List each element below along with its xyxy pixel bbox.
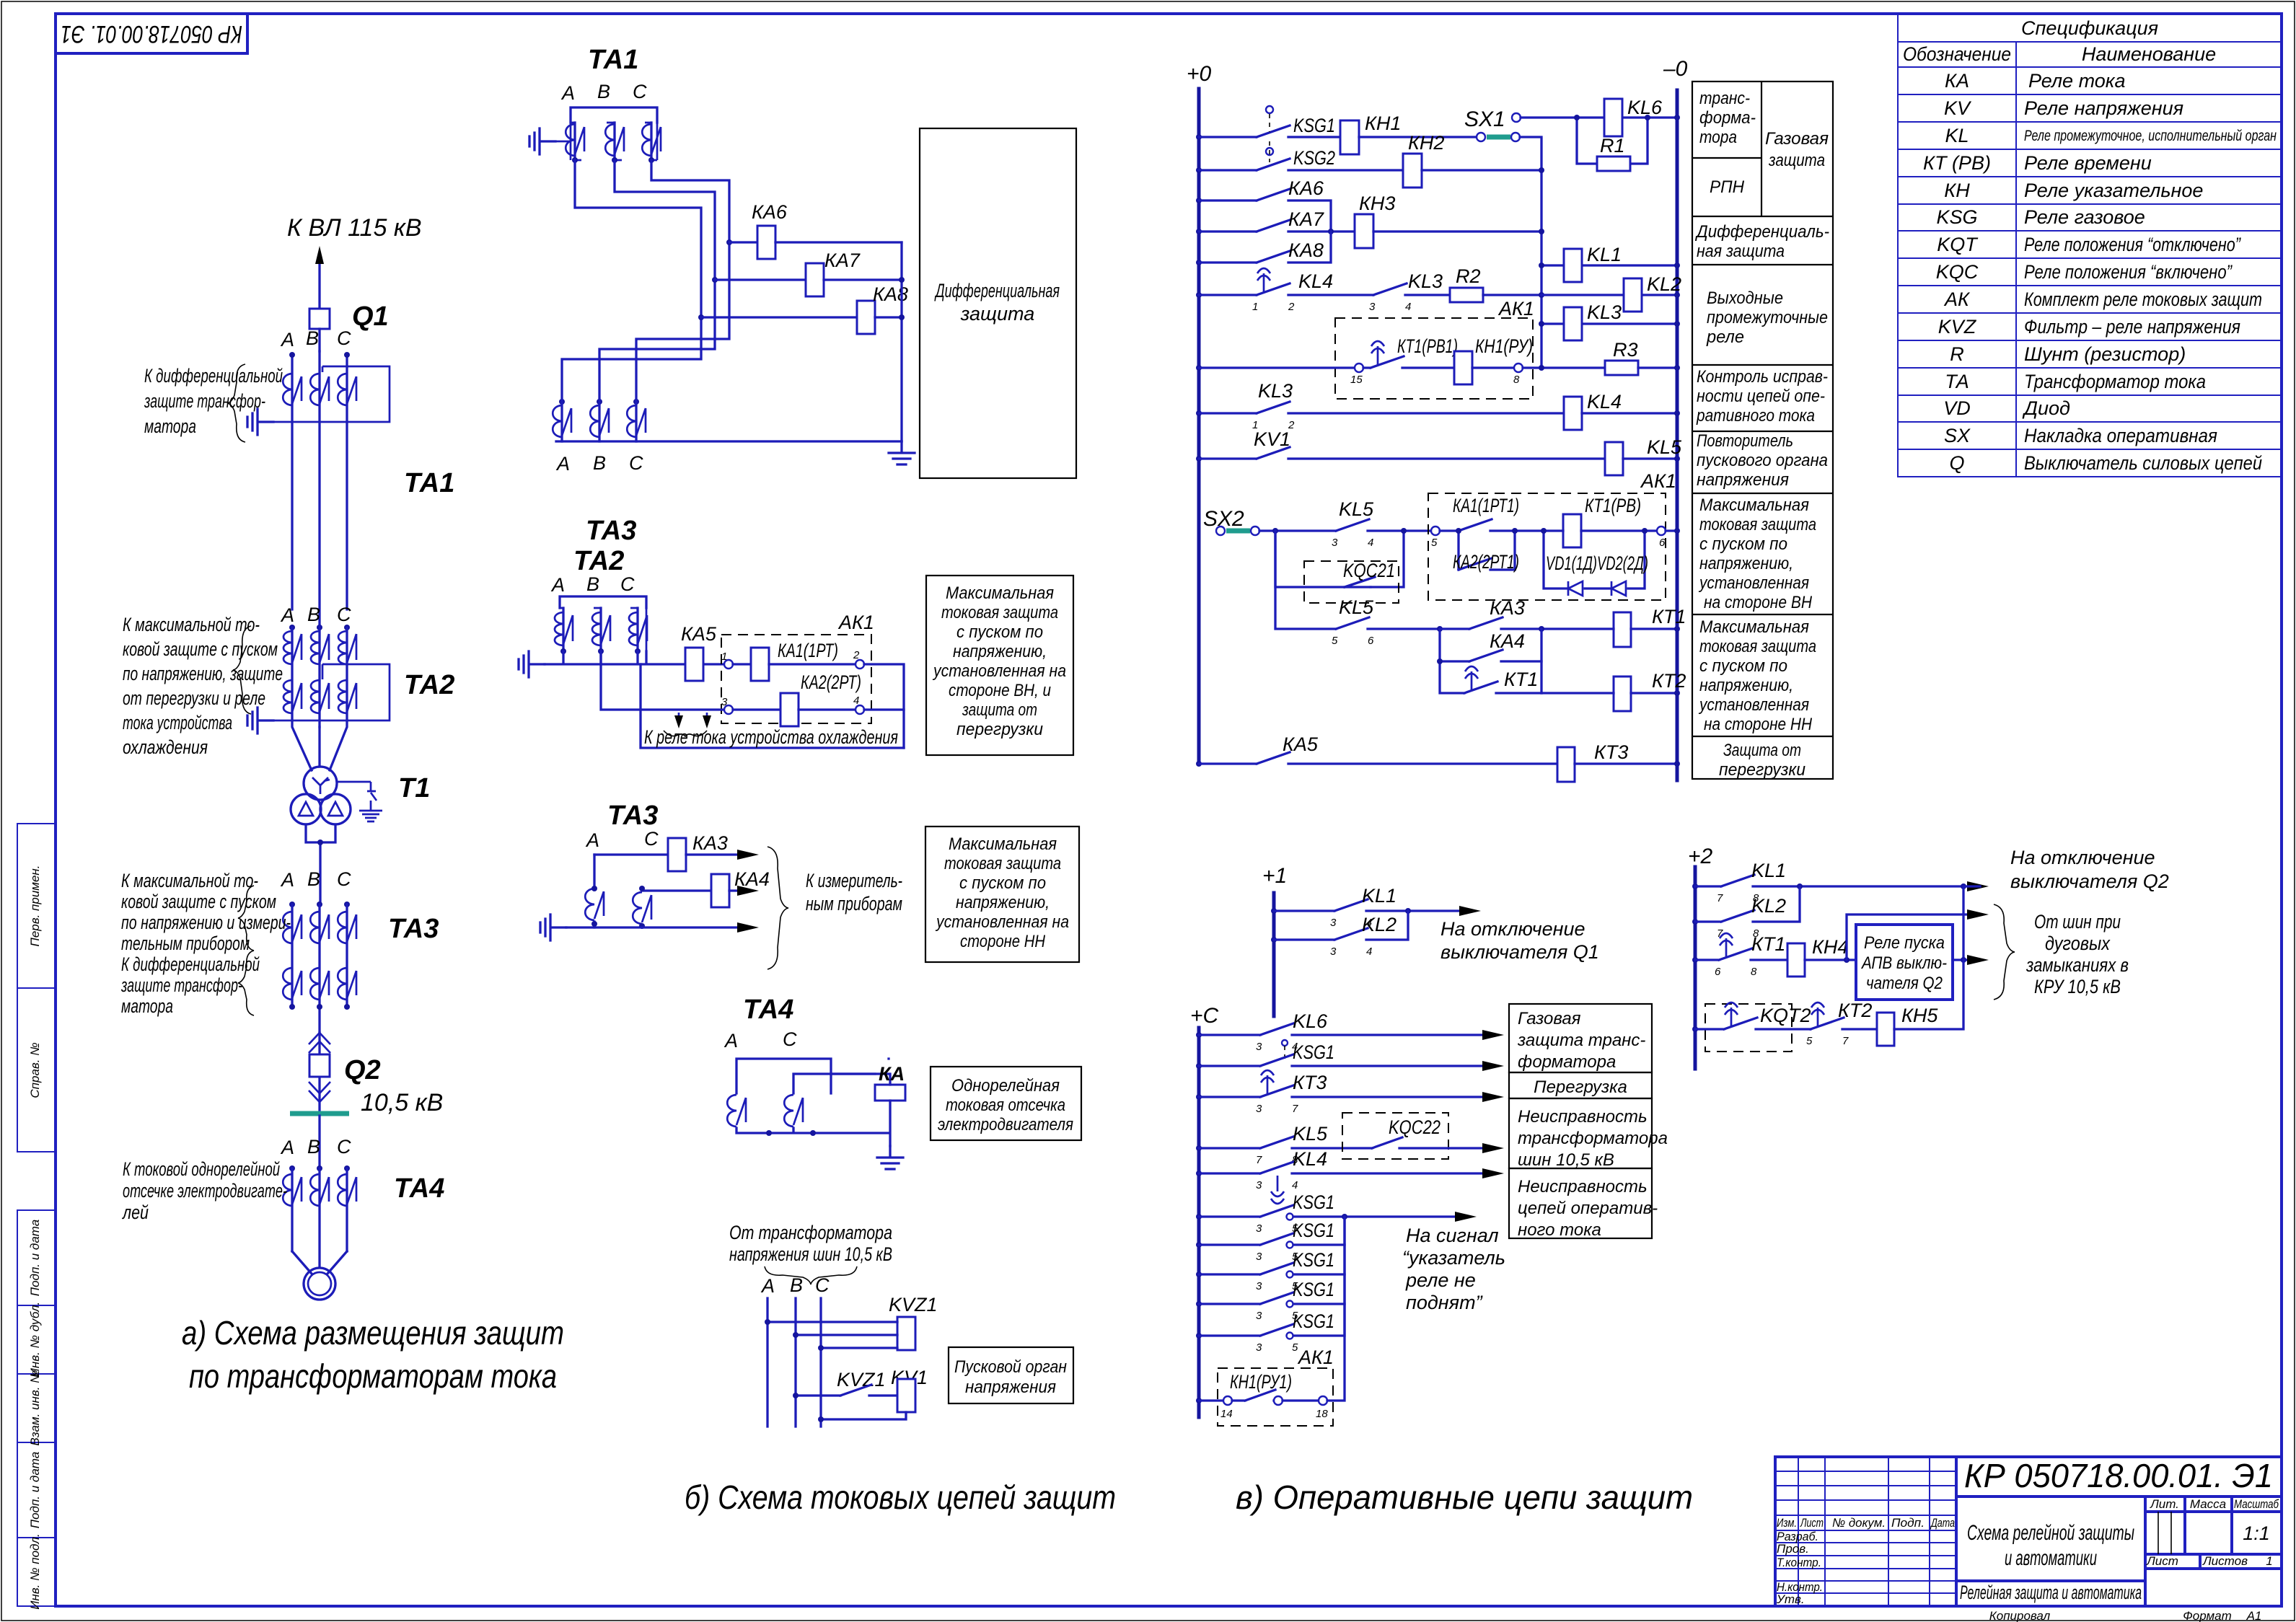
svg-text:Утв.: Утв. [1776, 1592, 1805, 1606]
svg-text:7: 7 [1842, 1035, 1849, 1047]
svg-text:Схема релейной защиты: Схема релейной защиты [1967, 1521, 2134, 1545]
text box MTZ NN [925, 827, 1079, 962]
wire down to TA4 [318, 1116, 320, 1168]
svg-text:Шунт (резистор): Шунт (резистор) [2024, 343, 2186, 365]
wires TA3 phases [292, 904, 347, 1033]
CT TA1 phase B [605, 124, 624, 156]
svg-text:реле не: реле не [1405, 1269, 1476, 1291]
row KA6 [1196, 198, 1202, 203]
svg-text:KVZ1: KVZ1 [889, 1294, 938, 1315]
breaker Q2 with chevrons [318, 1033, 320, 1114]
terminal 3 [724, 705, 733, 714]
diff protection box [920, 128, 1076, 478]
text box cut-off [931, 1067, 1081, 1140]
svg-text:В: В [593, 452, 606, 474]
diode VD2 [1611, 581, 1626, 596]
relay KH2 [1403, 154, 1422, 188]
svg-text:б) Схема токовых цепей защит: б) Схема токовых цепей защит [685, 1478, 1116, 1516]
row KL2 coil [1541, 294, 1677, 296]
svg-text:с пуском по: с пуском по [956, 622, 1043, 642]
svg-text:А: А [585, 829, 599, 851]
svg-text:VD: VD [1943, 397, 1971, 419]
top-left stamp box [56, 14, 247, 53]
svg-text:КА2(2РТ): КА2(2РТ) [801, 671, 861, 693]
svg-text:KQC: KQC [1936, 261, 1979, 283]
svg-text:KSG2: KSG2 [1293, 147, 1335, 169]
ground TA2b [519, 651, 545, 677]
contact KSG1 [1199, 125, 1340, 137]
svg-text:В: В [597, 81, 610, 102]
svg-text:шин 10,5 кВ: шин 10,5 кВ [1518, 1150, 1614, 1170]
svg-text:установленная: установленная [1698, 695, 1809, 715]
svg-text:АК1: АК1 [1640, 470, 1676, 492]
svg-text:3: 3 [1256, 1103, 1262, 1115]
svg-text:Неисправность: Неисправность [1518, 1107, 1648, 1127]
ground [889, 441, 915, 464]
contact KA7 [1199, 220, 1355, 232]
svg-text:KL3: KL3 [1408, 270, 1443, 292]
svg-text:+0: +0 [1187, 62, 1212, 86]
wire row KA3 [594, 853, 668, 855]
svg-text:КН2: КН2 [1408, 132, 1444, 154]
svg-text:ковой защите с пуском: ковой защите с пуском [121, 891, 276, 912]
transformer TA4 windings [283, 1174, 302, 1206]
svg-text:Лист: Лист [2146, 1554, 2178, 1568]
svg-text:Лит.: Лит. [2150, 1497, 2179, 1511]
resistor R2 [1450, 288, 1483, 302]
svg-text:К дифференциальной: К дифференциальной [144, 365, 283, 387]
svg-text:К измеритель-: К измеритель- [806, 870, 902, 891]
svg-text:транс-: транс- [1699, 89, 1750, 108]
svg-text:ТА4: ТА4 [743, 995, 793, 1025]
svg-text:Пров.: Пров. [1777, 1542, 1809, 1556]
svg-text:Инв. № дубл.: Инв. № дубл. [28, 1302, 42, 1378]
svg-text:KSG1: KSG1 [1293, 1220, 1334, 1241]
rows KSG1 x5 [1196, 1191, 1477, 1235]
svg-text:KL2: KL2 [1751, 895, 1786, 917]
wire phase C [346, 355, 348, 609]
svg-text:ративного тока: ративного тока [1696, 406, 1815, 426]
CT A [727, 1095, 746, 1127]
svg-text:А: А [280, 869, 294, 891]
svg-text:На отключение: На отключение [1441, 918, 1585, 940]
svg-text:3: 3 [1369, 301, 1376, 313]
svg-text:дуговых: дуговых [2045, 933, 2111, 954]
wire [1521, 116, 1677, 118]
svg-text:КА: КА [879, 1063, 905, 1085]
svg-text:1: 1 [1252, 301, 1258, 313]
row KL5 / KQC22 [1196, 1145, 1202, 1151]
contact KQT2 [1692, 1026, 1698, 1032]
contact KT1(PB1) [1363, 356, 1454, 368]
svg-text:С: С [337, 327, 351, 349]
svg-text:Копировал: Копировал [1989, 1609, 2051, 1622]
svg-text:KVZ: KVZ [1938, 316, 1977, 338]
row KA5 / KT3 [1196, 761, 1202, 767]
svg-text:1: 1 [2266, 1554, 2272, 1568]
TA1 secondary loop [273, 366, 390, 422]
svg-text:Контроль исправ-: Контроль исправ- [1697, 367, 1828, 387]
relay KA4 [711, 874, 729, 907]
svg-text:5: 5 [1431, 537, 1438, 549]
row KV1 / KL5 [1196, 456, 1202, 462]
svg-text:KSG1: KSG1 [1293, 1310, 1334, 1332]
svg-text:защите трансфор-: защите трансфор- [144, 390, 265, 412]
svg-text:КА5: КА5 [681, 623, 717, 645]
svg-text:ТА: ТА [1945, 371, 1969, 392]
transformer TA3 windings group2 [283, 968, 302, 1000]
transformer TA3 windings group1 [283, 912, 302, 943]
svg-text:Однорелейная: Однорелейная [951, 1076, 1060, 1096]
svg-text:КТ1: КТ1 [1751, 933, 1785, 955]
svg-text:Q2: Q2 [344, 1055, 381, 1085]
row KL5 5-6 / KA3 / KT1 coil [1275, 531, 1336, 629]
svg-text:КРУ 10,5 кВ: КРУ 10,5 кВ [2034, 976, 2121, 997]
relay KA6 [726, 239, 732, 245]
svg-text:Реле газовое: Реле газовое [2024, 206, 2145, 228]
svg-text:матора: матора [144, 415, 196, 437]
svg-text:6: 6 [1659, 537, 1666, 549]
svg-text:3: 3 [1256, 1341, 1262, 1354]
svg-text:KL2: KL2 [1362, 914, 1396, 935]
row KA8 [1196, 260, 1202, 265]
svg-text:14: 14 [1220, 1408, 1233, 1420]
branch KA2(2PT1) [1459, 531, 1515, 570]
svg-text:На отключение: На отключение [2010, 847, 2155, 868]
svg-text:К реле тока устройства охлажде: К реле тока устройства охлаждения [644, 726, 898, 748]
svg-text:ТА3: ТА3 [388, 914, 439, 944]
svg-text:3: 3 [1330, 917, 1337, 929]
svg-text:3: 3 [1330, 946, 1337, 958]
svg-text:Подп. и дата: Подп. и дата [28, 1452, 42, 1528]
CT C [633, 892, 651, 924]
svg-text:ТА4: ТА4 [394, 1173, 444, 1204]
svg-text:С: С [620, 573, 635, 595]
svg-text:KSG1: KSG1 [1293, 1279, 1334, 1300]
svg-text:Наименование: Наименование [2082, 43, 2216, 65]
svg-text:на стороне ВН: на стороне ВН [1704, 593, 1813, 612]
relay KA5 [685, 648, 703, 681]
svg-text:А1: А1 [2246, 1609, 2262, 1622]
svg-text:В: В [586, 573, 599, 595]
svg-text:чателя Q2: чателя Q2 [1866, 974, 1943, 993]
wire T1 bottom [306, 824, 335, 904]
svg-text:Диод: Диод [2022, 397, 2070, 419]
row KL1 [1271, 908, 1277, 914]
svg-text:КА7: КА7 [1288, 208, 1324, 230]
svg-text:Максимальная: Максимальная [946, 583, 1054, 603]
wire [318, 329, 320, 351]
svg-text:токовая защита: токовая защита [941, 603, 1058, 622]
svg-text:R2: R2 [1456, 265, 1481, 287]
svg-text:Листов: Листов [2202, 1554, 2248, 1568]
contact KL3 [1373, 283, 1450, 295]
brace 2 [238, 951, 254, 1015]
svg-text:KL1: KL1 [1362, 885, 1396, 907]
row KL4 [1196, 1171, 1202, 1176]
svg-text:А: А [280, 329, 294, 351]
svg-text:KL5: KL5 [1647, 436, 1682, 458]
CT TA2b C [629, 612, 647, 645]
inner links [571, 123, 657, 160]
svg-text:КА2(2РТ1): КА2(2РТ1) [1453, 551, 1519, 573]
svg-text:Подп. и дата: Подп. и дата [28, 1220, 42, 1296]
relay KA8 [698, 314, 704, 320]
wires to KVZ1 [767, 1322, 897, 1348]
svg-text:А: А [550, 574, 565, 596]
transformer TA2 windings group2 [283, 680, 302, 713]
wires converging to motor [292, 1251, 347, 1274]
relay KA1(1PT) [733, 663, 751, 665]
svg-text:АПВ выклю-: АПВ выклю- [1860, 953, 1947, 973]
svg-text:KL3: KL3 [1587, 301, 1622, 323]
CT TA3b phase B [590, 405, 609, 437]
svg-text:KQC22: KQC22 [1389, 1116, 1441, 1138]
contact KL4 [1199, 283, 1373, 295]
terminal 1 [724, 660, 733, 669]
CT TA1 phase C [642, 124, 661, 156]
row KSG2 / KH2 [1196, 167, 1202, 173]
svg-text:Реле промежуточное, исполнител: Реле промежуточное, исполнительный орган [2024, 128, 2277, 144]
contact KV1 [1199, 447, 1605, 459]
svg-text:КА4: КА4 [1490, 630, 1525, 652]
svg-text:реле: реле [1706, 327, 1744, 347]
svg-text:Взам. инв. №: Взам. инв. № [28, 1370, 42, 1445]
relay KL6 [1604, 99, 1622, 136]
svg-text:Реле пуска: Реле пуска [1864, 933, 1945, 953]
svg-text:Реле положения “отключено”: Реле положения “отключено” [2024, 234, 2241, 255]
svg-text:С: С [783, 1028, 797, 1050]
svg-text:В: В [307, 1136, 320, 1158]
wire stair A up [562, 317, 701, 402]
CT TA3b phase C [627, 405, 646, 437]
svg-text:В: В [790, 1274, 803, 1296]
svg-text:выключателя Q1: выключателя Q1 [1441, 941, 1599, 963]
svg-text:КТ3: КТ3 [1594, 741, 1628, 763]
wire row 3-4 [601, 651, 723, 710]
svg-text:а) Схема размещения защит: а) Схема размещения защит [182, 1314, 564, 1352]
svg-text:С: С [337, 604, 351, 625]
node vertical collector [1540, 139, 1542, 368]
svg-text:От трансформатора: От трансформатора [729, 1222, 892, 1243]
contact KSG2 [1199, 159, 1403, 170]
svg-text:Дифференциальная: Дифференциальная [934, 280, 1060, 301]
svg-text:ТА3: ТА3 [586, 516, 636, 546]
svg-text:С: С [337, 1136, 351, 1158]
relay KT2 [1614, 676, 1631, 711]
texts na signal [1402, 1225, 1505, 1313]
svg-text:KSG1: KSG1 [1293, 1041, 1334, 1063]
svg-text:электродвигателя: электродвигателя [938, 1115, 1073, 1134]
svg-text:матора: матора [121, 995, 173, 1017]
svg-text:Q1: Q1 [352, 301, 389, 332]
svg-text:ковой защите с пуском: ковой защите с пуском [123, 638, 278, 660]
row KSG1 / KH1 / SX1 [1196, 134, 1202, 140]
svg-text:КТ3: КТ3 [1293, 1072, 1327, 1093]
svg-text:напряжению,: напряжению, [1699, 676, 1793, 695]
svg-text:15: 15 [1350, 374, 1363, 386]
relay KA2(2PT) [733, 708, 780, 710]
svg-text:№ докум.: № докум. [1832, 1516, 1886, 1530]
label к дифф. защите [144, 365, 283, 437]
branch KT1 contact / KT2 coil [1440, 661, 1541, 693]
svg-text:С: С [633, 81, 647, 102]
svg-text:напряжения шин 10,5 кВ: напряжения шин 10,5 кВ [729, 1243, 892, 1265]
svg-text:КТ1: КТ1 [1652, 606, 1686, 627]
svg-text:3: 3 [1256, 1222, 1262, 1235]
svg-text:Повторитель: Повторитель [1697, 431, 1793, 451]
svg-text:KL1: KL1 [1751, 860, 1786, 881]
svg-text:ТА2: ТА2 [404, 670, 454, 700]
svg-text:защита: защита [960, 303, 1034, 325]
svg-text:Изм.: Изм. [1777, 1516, 1797, 1530]
svg-text:ТА2: ТА2 [573, 546, 624, 576]
CT TA2b A [555, 612, 573, 645]
svg-text:напряжению,: напряжению, [956, 893, 1050, 912]
svg-text:АК: АК [1943, 288, 1971, 310]
wire bottom loop [641, 664, 904, 748]
ground [247, 708, 273, 733]
svg-text:Дата: Дата [1930, 1516, 1955, 1530]
svg-text:На сигнал: На сигнал [1406, 1225, 1499, 1246]
contact KA8 [1199, 232, 1331, 263]
svg-text:4: 4 [1366, 946, 1372, 958]
relay KH3 [1355, 214, 1373, 248]
svg-text:В: В [307, 604, 320, 625]
svg-text:KSG1: KSG1 [1293, 1249, 1334, 1271]
svg-text:К ВЛ 115 кВ: К ВЛ 115 кВ [287, 214, 422, 242]
svg-text:Реле указательное: Реле указательное [2024, 180, 2203, 201]
svg-text:R: R [1950, 343, 1964, 365]
svg-text:Фильтр – реле напряжения: Фильтр – реле напряжения [2024, 316, 2240, 338]
branch KA4 [1440, 629, 1541, 661]
contact KA6 [1199, 189, 1331, 232]
svg-text:форматора: форматора [1518, 1052, 1616, 1072]
ground [877, 1146, 903, 1169]
svg-text:КА1(1РТ): КА1(1РТ) [778, 640, 838, 661]
svg-text:Релейная защита и автоматика: Релейная защита и автоматика [1960, 1582, 2142, 1603]
svg-text:3: 3 [1332, 537, 1338, 549]
relay KH1(РУ) [1454, 351, 1472, 384]
resistor R1 branch [1577, 118, 1648, 164]
svg-text:токовая защита: токовая защита [1699, 637, 1816, 656]
TA2 secondary loop [273, 664, 390, 720]
APV relay box [1856, 925, 1953, 1000]
svg-text:КН: КН [1944, 180, 1970, 201]
svg-text:и автоматики: и автоматики [2005, 1546, 2097, 1570]
svg-text:напряжению,: напряжению, [1699, 554, 1793, 573]
row KL3 contact / KL4 coil [1196, 410, 1202, 416]
svg-text:токовая защита: токовая защита [1699, 515, 1816, 534]
svg-text:SX: SX [1944, 425, 1971, 446]
wire feeder with arrow [318, 254, 320, 309]
relay KT3 [1557, 747, 1575, 782]
wire TA4 loop [736, 1059, 831, 1093]
wire stair A down [575, 160, 701, 317]
svg-text:4: 4 [853, 695, 859, 707]
row KSG1 [1196, 1063, 1202, 1069]
label к МТЗ и измерительным приборам [120, 870, 291, 1017]
relay KH5 [1877, 1013, 1894, 1046]
svg-text:К максимальной то-: К максимальной то- [121, 870, 258, 891]
svg-text:1:1: 1:1 [2243, 1522, 2270, 1544]
branch KQC21 [1275, 531, 1404, 587]
svg-text:3: 3 [1256, 1041, 1262, 1053]
row KT3 [1196, 1094, 1202, 1100]
svg-text:КА7: КА7 [824, 250, 861, 271]
svg-text:KL5: KL5 [1293, 1123, 1328, 1145]
row KT1(PB1) / KH1(РУ) [1196, 365, 1202, 371]
arrows to cooling relays [679, 713, 707, 721]
wires converging to T1 [292, 720, 347, 770]
contact KL3 [1199, 402, 1564, 413]
ТА3 lower group [559, 399, 565, 405]
svg-text:Дифференциаль-: Дифференциаль- [1694, 222, 1829, 242]
relay KA7 [712, 277, 718, 283]
svg-text:поднят”: поднят” [1406, 1292, 1483, 1313]
svg-text:Трансформатор тока: Трансформатор тока [2024, 371, 2206, 392]
svg-text:5: 5 [1292, 1341, 1298, 1354]
label к токовой отсечке [121, 1158, 287, 1223]
terminal 2 [855, 660, 864, 669]
svg-text:KQC21: KQC21 [1343, 560, 1395, 581]
wire stair B up [599, 280, 715, 402]
svg-text:7: 7 [1256, 1154, 1262, 1166]
svg-text:КН4: КН4 [1812, 936, 1848, 958]
wire [1422, 169, 1541, 171]
svg-text:пускового органа: пускового органа [1697, 451, 1828, 470]
svg-text:ТА1: ТА1 [404, 468, 454, 498]
CT TA2b B [592, 612, 610, 645]
svg-text:КА6: КА6 [752, 201, 788, 223]
wire stair C down [651, 160, 729, 242]
svg-text:KL6: KL6 [1627, 97, 1663, 118]
relay KH1 [1340, 120, 1359, 154]
svg-text:по напряжению, защите: по напряжению, защите [123, 663, 283, 684]
svg-text:токовая отсечка: токовая отсечка [946, 1096, 1065, 1115]
svg-text:КТ1(РВ): КТ1(РВ) [1585, 495, 1641, 516]
svg-text:КР 050718.00.01. Э1: КР 050718.00.01. Э1 [61, 20, 242, 48]
svg-text:КР 050718.00.01. Э1: КР 050718.00.01. Э1 [1964, 1457, 2273, 1494]
svg-text:С: С [337, 868, 351, 890]
svg-text:стороне ВН, и: стороне ВН, и [949, 681, 1051, 700]
svg-text:КН1(РУ): КН1(РУ) [1475, 335, 1533, 357]
wire [1359, 136, 1477, 138]
svg-text:РПН: РПН [1710, 177, 1745, 197]
CT TA1 phase A [566, 124, 584, 156]
svg-text:KL1: KL1 [1587, 244, 1622, 265]
svg-text:перегрузки: перегрузки [956, 720, 1043, 739]
svg-text:установленная на: установленная на [932, 661, 1066, 681]
svg-text:KL2: KL2 [1647, 273, 1681, 295]
svg-text:ным приборам: ным приборам [806, 893, 902, 914]
svg-text:5: 5 [1332, 635, 1338, 647]
svg-text:цепей оператив-: цепей оператив- [1518, 1199, 1658, 1218]
svg-text:КА3: КА3 [692, 832, 728, 854]
svg-text:Выходные: Выходные [1707, 288, 1783, 308]
text box MTZ VN [926, 576, 1073, 755]
AK1 dashed box (middle) [1428, 493, 1666, 600]
wire 3 phase verticals [767, 1298, 821, 1427]
relay KA3 [668, 838, 686, 871]
svg-text:КА3: КА3 [1490, 597, 1525, 619]
wire [1483, 294, 1541, 296]
svg-text:+2: +2 [1688, 845, 1713, 868]
svg-text:Формат: Формат [2183, 1609, 2232, 1622]
svg-text:ТА1: ТА1 [588, 45, 638, 75]
svg-text:Масштаб: Масштаб [2234, 1497, 2279, 1511]
svg-text:3: 3 [1256, 1179, 1262, 1191]
